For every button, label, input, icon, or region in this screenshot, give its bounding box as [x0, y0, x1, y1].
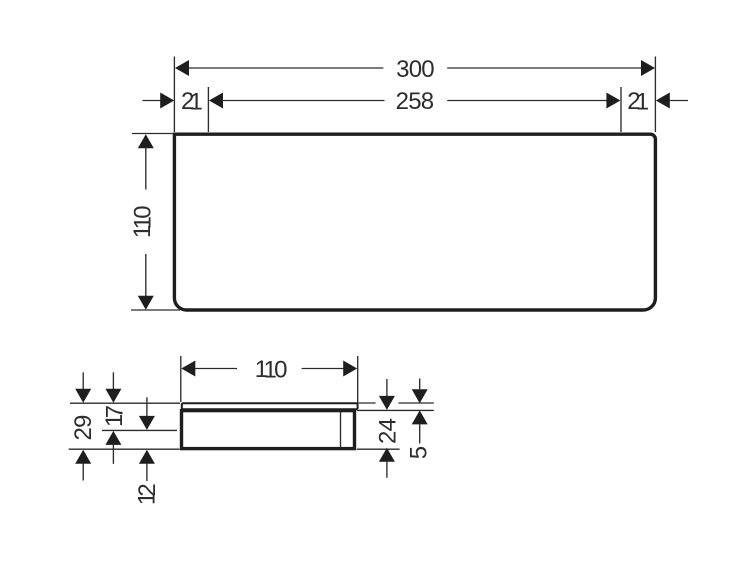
dimension 300 — [175, 56, 655, 83]
extension line 110 bottom — [131, 309, 180, 311]
svg-text:17: 17 — [101, 405, 128, 427]
dimension 29 — [70, 372, 97, 480]
dimension 21 left — [143, 88, 203, 115]
body inner edge line — [340, 411, 342, 447]
extension line 110b left — [180, 356, 182, 402]
extension line 258 left — [207, 87, 209, 132]
svg-text:29: 29 — [70, 415, 97, 441]
dimension 17 — [101, 372, 128, 464]
shelf plate side view — [182, 403, 358, 409]
svg-text:258: 258 — [396, 88, 434, 115]
extension line 300 left — [173, 57, 175, 133]
svg-text:21: 21 — [181, 88, 203, 115]
svg-text:110: 110 — [129, 206, 156, 238]
extension line left top — [70, 402, 180, 404]
svg-text:110: 110 — [255, 356, 287, 383]
extension line 110b right — [357, 356, 359, 409]
shelf top-view outline — [174, 134, 655, 310]
dimension 110 vertical — [129, 134, 156, 310]
svg-text:24: 24 — [375, 418, 402, 444]
dimension 110 profile width — [181, 356, 357, 383]
dimension 5 — [406, 378, 433, 459]
svg-text:12: 12 — [134, 484, 161, 506]
extension line 258 right — [620, 87, 622, 132]
svg-text:21: 21 — [627, 88, 649, 115]
svg-text:5: 5 — [406, 446, 433, 459]
extension line 300 right — [654, 57, 656, 133]
shelf body side view — [182, 411, 355, 449]
svg-text:300: 300 — [396, 56, 434, 83]
extension line right bottom — [357, 448, 400, 450]
dimension 21 right — [627, 88, 688, 115]
extension line right middle — [357, 409, 434, 411]
extension line right top a — [359, 402, 376, 404]
dimension 12 — [134, 397, 161, 505]
dimension 24 — [375, 379, 402, 478]
extension line left middle — [102, 429, 177, 431]
extension line right top b — [398, 402, 433, 404]
extension line left bottom — [69, 448, 180, 450]
extension line 110 top — [132, 133, 173, 135]
dimension 258 — [209, 88, 620, 115]
